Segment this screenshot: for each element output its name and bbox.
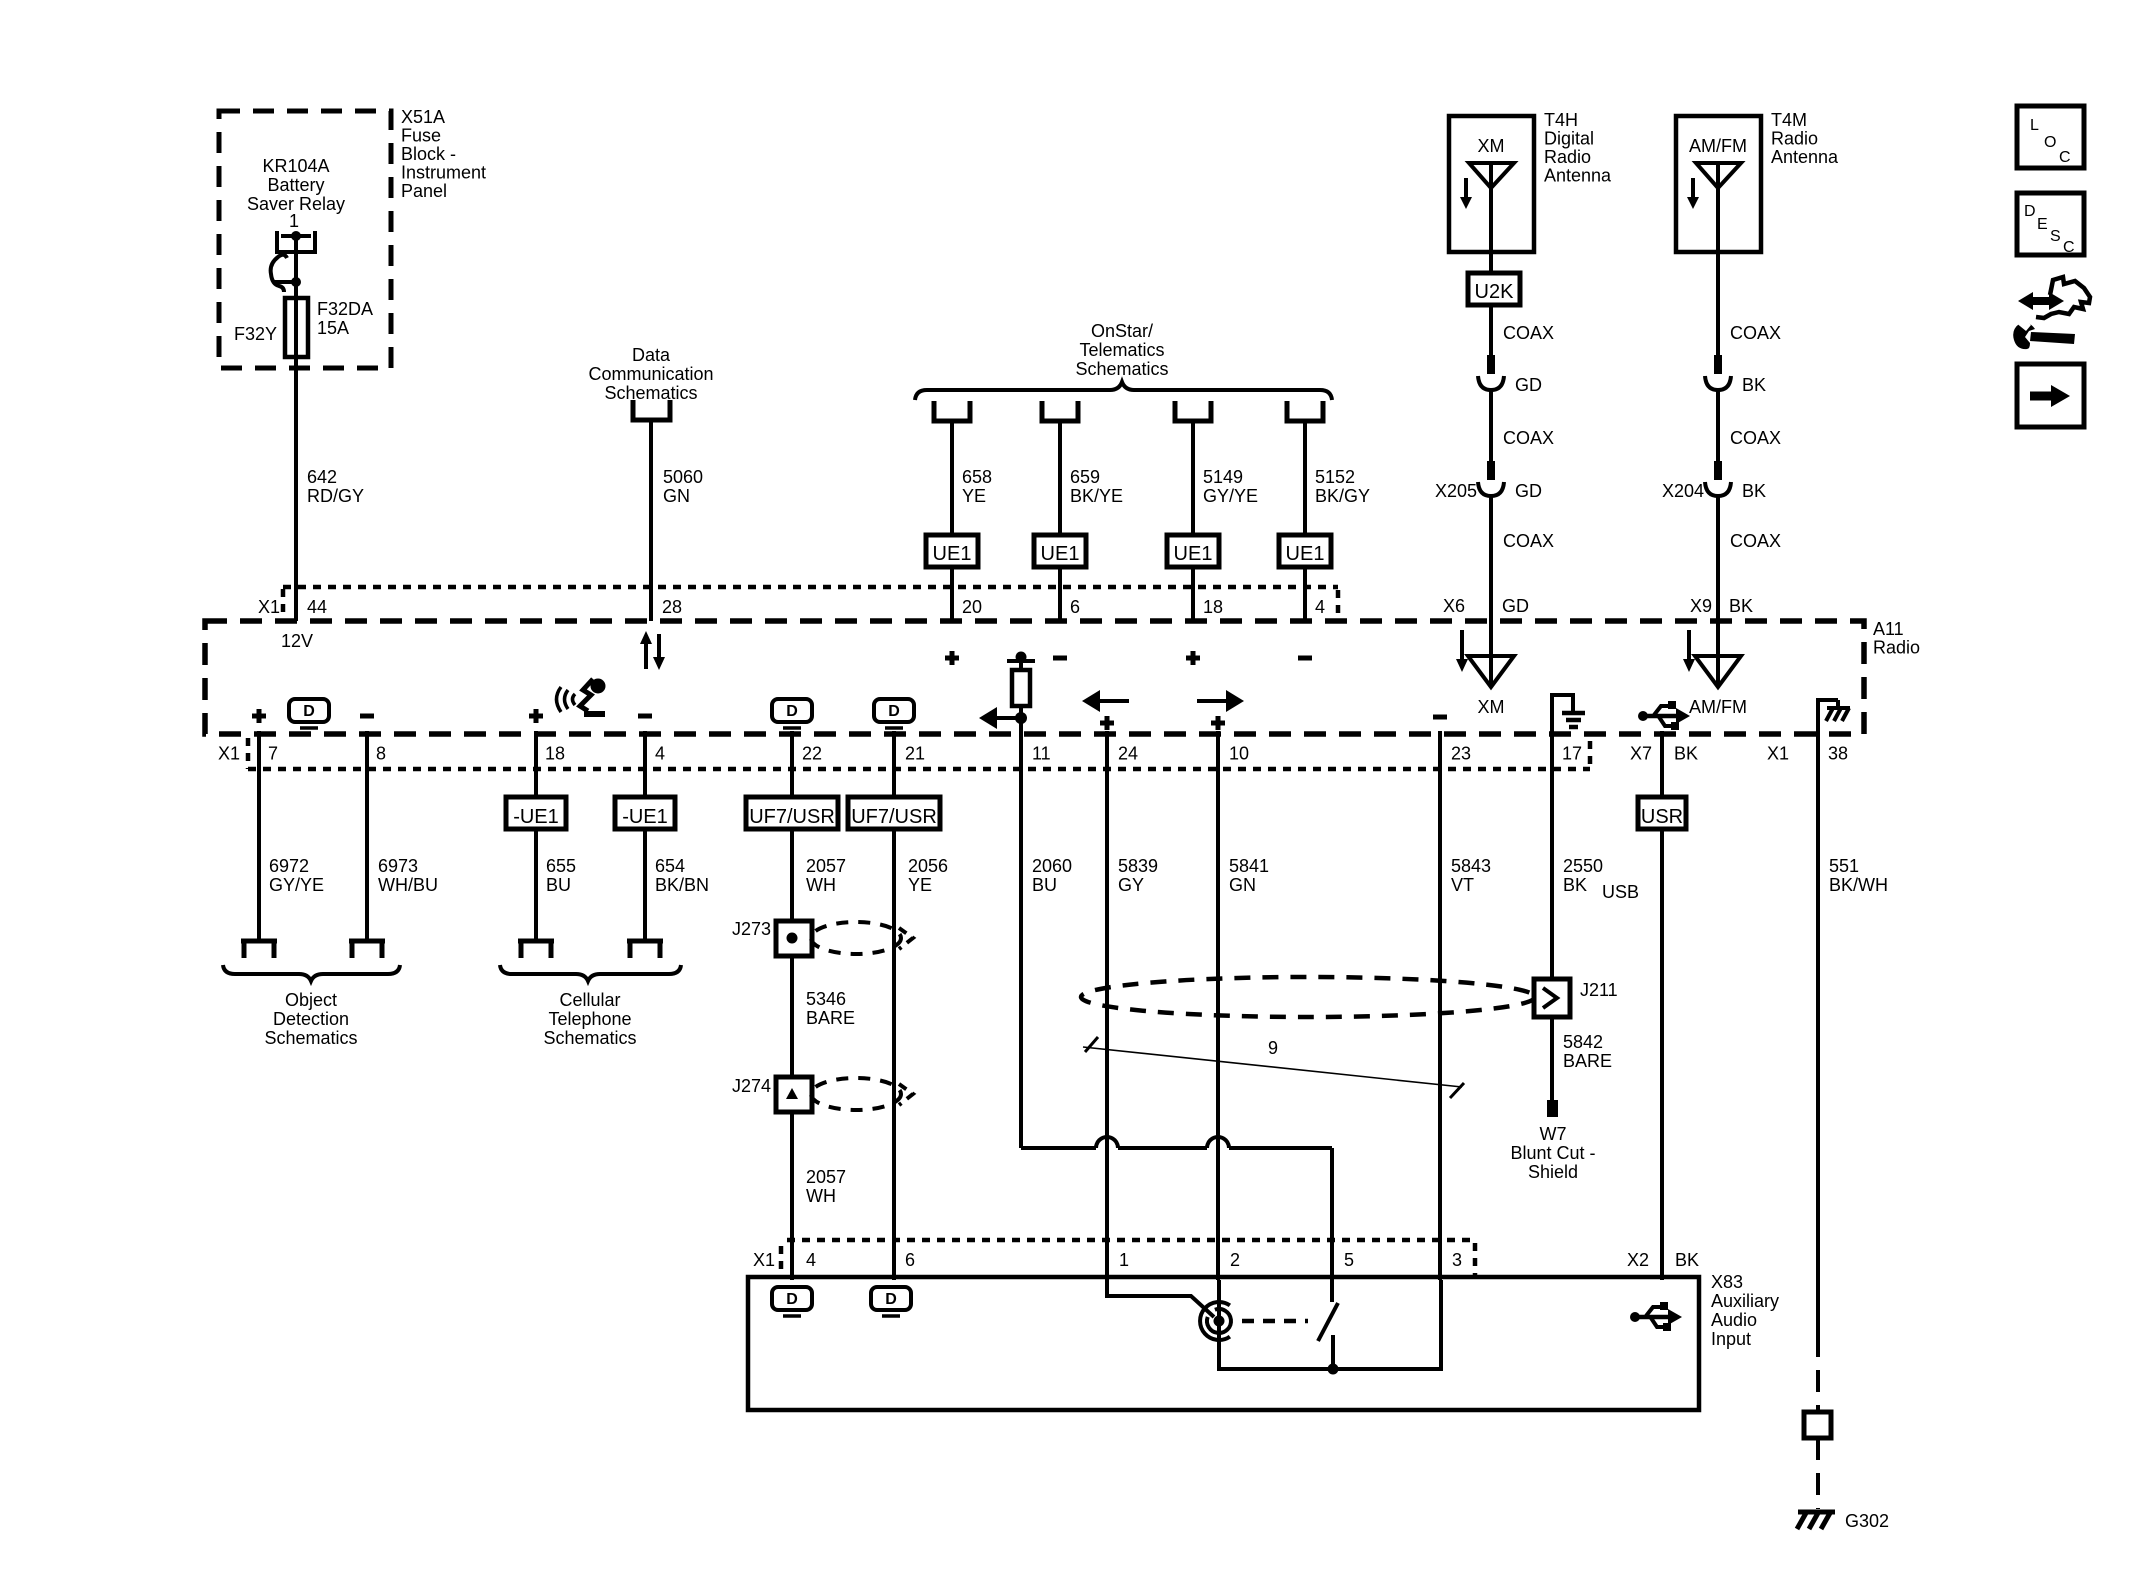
data communication schematics label	[588, 345, 713, 403]
svg-text:GD: GD	[1502, 596, 1529, 616]
svg-text:GN: GN	[1229, 875, 1256, 895]
relay KR104A contact	[277, 231, 315, 282]
data communication connector	[633, 400, 670, 420]
svg-text:XM: XM	[1478, 697, 1505, 717]
svg-text:BU: BU	[1032, 875, 1057, 895]
svg-text:4: 4	[806, 1250, 816, 1270]
svg-text:X2: X2	[1627, 1250, 1649, 1270]
svg-text:T4H: T4H	[1544, 110, 1578, 130]
arrow out (pin 10)	[1197, 690, 1244, 712]
svg-text:USB: USB	[1602, 882, 1639, 902]
svg-text:655: 655	[546, 856, 576, 876]
svg-text:S: S	[2050, 228, 2061, 245]
svg-text:5843: 5843	[1451, 856, 1491, 876]
shield ellipse (J211)	[1081, 977, 1535, 1017]
svg-text:X204: X204	[1662, 481, 1704, 501]
svg-text:6: 6	[905, 1250, 915, 1270]
display D box (pin 7/8 pair)	[289, 699, 329, 728]
jack switch link (dashed)	[1242, 1319, 1308, 1324]
coax inline connector 1 (T4H)	[1478, 355, 1542, 395]
svg-text:5839: 5839	[1118, 856, 1158, 876]
svg-text:BK: BK	[1674, 744, 1698, 764]
svg-text:Schematics: Schematics	[264, 1028, 357, 1048]
wire 551 dashed to ground	[1816, 1438, 1820, 1509]
wire 2060 BU	[1021, 734, 1072, 1148]
svg-text:WH/BU: WH/BU	[378, 875, 438, 895]
svg-text:X1: X1	[258, 597, 280, 617]
svg-text:D: D	[303, 703, 315, 720]
svg-text:X6: X6	[1443, 596, 1465, 616]
svg-text:Schematics: Schematics	[604, 383, 697, 403]
OnStar connector 5149	[1175, 401, 1211, 421]
svg-text:X83: X83	[1711, 1272, 1743, 1292]
wire 2550 BK	[1552, 734, 1603, 979]
svg-text:Object: Object	[285, 990, 337, 1010]
relay KR104A label	[247, 156, 345, 214]
brace object detection	[223, 965, 400, 981]
svg-text:UE1: UE1	[1041, 543, 1080, 565]
speaker - (pin 8)	[360, 714, 374, 719]
svg-text:F32Y: F32Y	[234, 324, 277, 344]
antenna T4H label	[1544, 110, 1612, 186]
svg-text:O: O	[2044, 134, 2056, 151]
svg-text:3: 3	[1452, 1250, 1462, 1270]
radio A11 label	[1873, 619, 1920, 658]
wire 5841 GN	[1218, 731, 1269, 1280]
svg-text:5060: 5060	[663, 467, 703, 487]
object detection label	[264, 990, 357, 1048]
wire 655 BU	[536, 829, 576, 941]
splice pack -UE1 (655)	[506, 731, 566, 829]
svg-text:X7: X7	[1630, 744, 1652, 764]
svg-text:YE: YE	[908, 875, 932, 895]
svg-text:5152: 5152	[1315, 467, 1355, 487]
wire 659 BK/YE	[1060, 421, 1123, 535]
svg-text:18: 18	[1203, 597, 1223, 617]
splice J211	[1534, 979, 1618, 1017]
svg-text:11: 11	[1032, 744, 1051, 764]
OnStar brace	[915, 382, 1332, 400]
X83 connector dotted row	[753, 1240, 1475, 1277]
antenna T4M symbol	[1696, 163, 1741, 252]
aux + (pin 10)	[1211, 716, 1225, 730]
svg-text:WH: WH	[806, 875, 836, 895]
fuse block label X51A	[401, 107, 486, 201]
phone + (pin 18)	[529, 709, 543, 723]
svg-text:BK: BK	[1742, 481, 1766, 501]
antenna T4M arrow	[1687, 178, 1699, 209]
wire COAX (X204 to radio X9)	[1718, 496, 1781, 621]
svg-text:1: 1	[1119, 1250, 1129, 1270]
shield ellipse (J274)	[811, 1078, 913, 1110]
svg-text:44: 44	[307, 597, 327, 617]
wire 5149 GY/YE	[1193, 421, 1258, 535]
svg-text:GY/YE: GY/YE	[269, 875, 324, 895]
svg-text:Panel: Panel	[401, 181, 447, 201]
splice pack UE1 (5152)	[1279, 535, 1331, 567]
terminal (pin 7 wire)	[241, 941, 277, 958]
svg-text:658: 658	[962, 467, 992, 487]
svg-text:X51A: X51A	[401, 107, 445, 127]
svg-text:2057: 2057	[806, 856, 846, 876]
phone - (pin 4)	[638, 714, 652, 719]
svg-text:6973: 6973	[378, 856, 418, 876]
svg-text:Battery: Battery	[267, 175, 324, 195]
wire 659 to pin 6	[1058, 567, 1062, 621]
svg-text:Telephone: Telephone	[548, 1009, 631, 1029]
svg-text:USR: USR	[1641, 806, 1683, 828]
svg-text:Antenna: Antenna	[1771, 147, 1839, 167]
svg-text:UF7/USR: UF7/USR	[851, 806, 937, 828]
terminal (pin 8 wire)	[349, 941, 385, 958]
AM/FM antenna symbol (inside radio)	[1689, 621, 1747, 717]
svg-text:D: D	[786, 703, 798, 720]
svg-text:KR104A: KR104A	[262, 156, 329, 176]
icon DESC	[2017, 193, 2084, 256]
OnStar polarity + (pin 18)	[1186, 651, 1200, 665]
svg-text:-UE1: -UE1	[513, 806, 559, 828]
svg-text:18: 18	[545, 744, 565, 764]
svg-text:AM/FM: AM/FM	[1689, 697, 1747, 717]
svg-text:659: 659	[1070, 467, 1100, 487]
svg-text:Radio: Radio	[1873, 638, 1920, 658]
XM antenna symbol (inside radio)	[1468, 621, 1514, 717]
svg-text:UF7/USR: UF7/USR	[749, 806, 835, 828]
wire 5149 to pin 18	[1191, 567, 1195, 621]
wire 6972 GY/YE	[259, 731, 324, 941]
data link up/down arrows (pin 28)	[640, 631, 665, 670]
svg-text:Digital: Digital	[1544, 129, 1594, 149]
radio top connector X1 dotted row	[258, 587, 1338, 618]
svg-text:YE: YE	[962, 486, 986, 506]
icon harness arrows	[2018, 277, 2090, 318]
wire COAX (X205 to radio X6)	[1491, 496, 1554, 621]
svg-text:J274: J274	[732, 1076, 771, 1096]
cellular telephone label	[543, 990, 636, 1048]
wire relay to fuse	[294, 282, 298, 300]
X83 label	[1711, 1272, 1779, 1349]
svg-text:COAX: COAX	[1730, 428, 1781, 448]
radio bottom connector X1 dotted row	[218, 738, 1590, 769]
svg-text:A11: A11	[1873, 619, 1904, 639]
pin X1 38 label	[1767, 744, 1848, 764]
terminal (pin 4 wire)	[627, 941, 663, 958]
svg-text:Auxiliary: Auxiliary	[1711, 1291, 1779, 1311]
option box UF7/USR (pin 21)	[848, 731, 940, 829]
svg-text:5842: 5842	[1563, 1032, 1603, 1052]
inline connector X204	[1662, 461, 1766, 501]
svg-text:5841: 5841	[1229, 856, 1269, 876]
wire 2060 horizontal with hops	[1021, 1137, 1332, 1280]
svg-text:BK/YE: BK/YE	[1070, 486, 1123, 506]
svg-text:Fuse: Fuse	[401, 126, 441, 146]
svg-text:2: 2	[1230, 1250, 1240, 1270]
wire 5152 to pin 4	[1303, 567, 1307, 621]
pin X7 BK label	[1630, 744, 1698, 764]
OnStar/Telematics label	[1075, 321, 1168, 379]
svg-text:7: 7	[268, 744, 278, 764]
svg-text:COAX: COAX	[1730, 323, 1781, 343]
option box USR (X7)	[1638, 731, 1686, 829]
wire 551 BK/WH	[1818, 734, 1888, 1335]
OnStar connector 5152	[1287, 401, 1323, 421]
svg-text:BU: BU	[546, 875, 571, 895]
wire 642 RD/GY	[296, 357, 364, 621]
antenna T4H box	[1449, 116, 1534, 252]
svg-text:Instrument: Instrument	[401, 163, 486, 183]
OnStar connector 659	[1042, 401, 1078, 421]
svg-text:J211: J211	[1580, 980, 1618, 1000]
svg-text:9: 9	[1268, 1038, 1278, 1058]
splice J274	[732, 1076, 812, 1112]
svg-text:UE1: UE1	[1286, 543, 1325, 565]
chassis ground (pin 38)	[1816, 700, 1850, 734]
svg-text:BK: BK	[1675, 1250, 1699, 1270]
inline connector (551)	[1804, 1412, 1831, 1438]
wire 5152 BK/GY	[1305, 421, 1370, 535]
wire USB	[1602, 829, 1662, 1280]
svg-text:2550: 2550	[1563, 856, 1603, 876]
wire 658 to pin 20	[950, 567, 954, 621]
svg-text:T4M: T4M	[1771, 110, 1807, 130]
svg-text:654: 654	[655, 856, 685, 876]
wire 658 YE	[952, 421, 992, 535]
svg-text:6: 6	[1070, 597, 1080, 617]
antenna T4H arrow	[1460, 178, 1472, 209]
svg-text:X1: X1	[1767, 744, 1789, 764]
svg-text:X9: X9	[1690, 596, 1712, 616]
svg-text:BK: BK	[1729, 596, 1753, 616]
terminal (pin 18 wire)	[518, 941, 554, 958]
OnStar polarity + (pin 20)	[945, 651, 959, 665]
arrow in (pin 24)	[1082, 690, 1129, 712]
fuse F32DA 15A	[285, 298, 373, 357]
svg-text:BK/BN: BK/BN	[655, 875, 709, 895]
svg-text:2057: 2057	[806, 1167, 846, 1187]
svg-text:GY/YE: GY/YE	[1203, 486, 1258, 506]
USB icon (radio X7)	[1638, 701, 1690, 730]
arrow out (pin 11)	[979, 707, 1027, 729]
svg-text:W7: W7	[1540, 1124, 1567, 1144]
svg-text:D: D	[2024, 203, 2036, 220]
svg-text:Schematics: Schematics	[1075, 359, 1168, 379]
brace cellular telephone	[500, 965, 681, 981]
ground G302	[1797, 1511, 1889, 1531]
display D box (pin 22)	[772, 699, 812, 728]
svg-text:BK/WH: BK/WH	[1829, 875, 1888, 895]
AM/FM antenna arrow (inside radio)	[1683, 630, 1695, 672]
svg-text:Input: Input	[1711, 1329, 1751, 1349]
svg-text:D: D	[885, 1291, 897, 1308]
icon next arrow box	[2017, 364, 2084, 427]
X83 pin X2 BK label	[1627, 1250, 1699, 1270]
svg-text:BK/GY: BK/GY	[1315, 486, 1370, 506]
svg-text:COAX: COAX	[1503, 323, 1554, 343]
svg-text:X1: X1	[753, 1250, 775, 1270]
wire COAX (T4M to connector)	[1718, 252, 1781, 357]
X83 box	[748, 1277, 1699, 1410]
splice J273	[732, 919, 812, 956]
svg-text:COAX: COAX	[1503, 428, 1554, 448]
wire 5060 GN	[651, 420, 703, 621]
svg-text:5346: 5346	[806, 989, 846, 1009]
svg-text:RD/GY: RD/GY	[307, 486, 364, 506]
icon wrench	[2013, 315, 2075, 349]
wire 5842 BARE	[1552, 1017, 1612, 1100]
svg-text:Antenna: Antenna	[1544, 166, 1612, 186]
radio A11 dashed box	[205, 621, 1864, 734]
wire 6973 WH/BU	[367, 731, 438, 941]
svg-text:J273: J273	[732, 919, 771, 939]
svg-text:17: 17	[1562, 744, 1582, 764]
svg-text:Radio: Radio	[1771, 129, 1818, 149]
svg-text:WH: WH	[806, 1186, 836, 1206]
svg-text:38: 38	[1828, 744, 1848, 764]
svg-text:Communication: Communication	[588, 364, 713, 384]
svg-text:Shield: Shield	[1528, 1162, 1578, 1182]
svg-text:C: C	[2063, 239, 2075, 256]
svg-text:Data: Data	[632, 345, 671, 365]
svg-text:UE1: UE1	[933, 543, 972, 565]
svg-text:X1: X1	[218, 744, 240, 764]
svg-text:24: 24	[1118, 744, 1138, 764]
svg-text:GD: GD	[1515, 481, 1542, 501]
svg-text:4: 4	[655, 744, 665, 764]
aux - (pin 23)	[1433, 715, 1447, 720]
svg-text:U2K: U2K	[1475, 281, 1515, 303]
svg-text:GN: GN	[663, 486, 690, 506]
wire 654 BK/BN	[645, 829, 709, 941]
svg-text:BK: BK	[1563, 875, 1587, 895]
splice pack UE1 (658)	[926, 535, 978, 567]
svg-text:-UE1: -UE1	[622, 806, 668, 828]
wire 2056 YE	[894, 829, 948, 1280]
jack detect wire (pin 1)	[1107, 1280, 1214, 1317]
svg-text:12V: 12V	[281, 631, 313, 651]
svg-text:OnStar/: OnStar/	[1091, 321, 1153, 341]
wire 5346 BARE	[792, 956, 855, 1077]
svg-text:2056: 2056	[908, 856, 948, 876]
resistor (pin 11 detect)	[1007, 652, 1035, 735]
svg-text:1: 1	[289, 211, 299, 231]
antenna T4M box	[1676, 116, 1761, 252]
svg-text:XM: XM	[1478, 136, 1505, 156]
jack switch	[1318, 1280, 1339, 1375]
svg-text:GD: GD	[1515, 375, 1542, 395]
wire 5843 VT	[1440, 731, 1491, 1280]
shield ellipse (J273)	[811, 922, 913, 954]
phone handset icon	[557, 679, 606, 715]
svg-text:22: 22	[802, 744, 822, 764]
display D box (pin 21)	[874, 699, 914, 728]
option box UF7/USR (pin 22)	[746, 731, 838, 829]
antenna T4H symbol	[1469, 163, 1514, 252]
svg-text:Cellular: Cellular	[559, 990, 620, 1010]
OnStar polarity - (pin 4)	[1298, 656, 1312, 661]
wire COAX (connector1 to X205)	[1491, 390, 1554, 463]
aux + (pin 24)	[1100, 716, 1114, 730]
svg-text:28: 28	[662, 597, 682, 617]
svg-text:G302: G302	[1845, 1511, 1889, 1531]
svg-text:D: D	[786, 1291, 798, 1308]
svg-text:Blunt Cut -: Blunt Cut -	[1510, 1143, 1595, 1163]
wire antenna to U2K	[1489, 252, 1493, 273]
svg-text:Telematics: Telematics	[1079, 340, 1164, 360]
wire 551 dashed lower	[1816, 1335, 1820, 1412]
XM antenna arrow (inside radio)	[1456, 630, 1468, 672]
svg-text:4: 4	[1315, 597, 1325, 617]
svg-text:COAX: COAX	[1503, 531, 1554, 551]
svg-text:E: E	[2037, 216, 2048, 233]
OnStar connector 658	[934, 401, 970, 421]
svg-text:Audio: Audio	[1711, 1310, 1757, 1330]
coax inline connector 1 (T4M)	[1705, 355, 1766, 395]
svg-text:6972: 6972	[269, 856, 309, 876]
svg-text:Block -: Block -	[401, 144, 456, 164]
wire COAX (connector1 to X204)	[1718, 390, 1781, 463]
display D box (X83 pin 4)	[772, 1287, 812, 1316]
fuse block X51A dashed box	[219, 111, 391, 368]
svg-text:15A: 15A	[317, 318, 349, 338]
svg-text:5149: 5149	[1203, 467, 1243, 487]
option box U2K	[1468, 273, 1520, 305]
svg-text:2060: 2060	[1032, 856, 1072, 876]
svg-text:X205: X205	[1435, 481, 1477, 501]
svg-text:Detection: Detection	[273, 1009, 349, 1029]
pin X9 BK label	[1690, 596, 1753, 616]
speaker + (pin 7)	[252, 709, 266, 723]
display D box (X83 pin 6)	[871, 1287, 911, 1316]
jack plug symbol	[1200, 1302, 1231, 1340]
svg-text:Radio: Radio	[1544, 147, 1591, 167]
wire 5839 GY	[1107, 731, 1158, 1280]
svg-text:21: 21	[905, 744, 925, 764]
signal ground (pin 17)	[1550, 695, 1585, 734]
blunt cut terminal W7	[1510, 1100, 1595, 1182]
svg-text:L: L	[2030, 117, 2039, 134]
svg-text:GY: GY	[1118, 875, 1144, 895]
splice pack UE1 (659)	[1034, 535, 1086, 567]
svg-text:BARE: BARE	[1563, 1051, 1612, 1071]
splice pack -UE1 (654)	[615, 731, 675, 829]
svg-text:5: 5	[1344, 1250, 1354, 1270]
pin X6 GD label	[1443, 596, 1529, 616]
inline connector X205	[1435, 461, 1542, 501]
svg-text:8: 8	[376, 744, 386, 764]
twisted pair note 9	[1083, 1037, 1464, 1098]
svg-text:VT: VT	[1451, 875, 1474, 895]
svg-text:F32DA: F32DA	[317, 299, 373, 319]
wire 2057 WH (upper)	[792, 829, 846, 921]
svg-text:Schematics: Schematics	[543, 1028, 636, 1048]
svg-text:AM/FM: AM/FM	[1689, 136, 1747, 156]
svg-text:BARE: BARE	[806, 1008, 855, 1028]
USB icon (X83)	[1630, 1302, 1682, 1331]
svg-text:COAX: COAX	[1730, 531, 1781, 551]
svg-text:D: D	[888, 703, 900, 720]
relay switch blade	[271, 255, 301, 292]
svg-text:642: 642	[307, 467, 337, 487]
svg-text:10: 10	[1229, 744, 1249, 764]
svg-text:BK: BK	[1742, 375, 1766, 395]
svg-text:UE1: UE1	[1174, 543, 1213, 565]
OnStar polarity - (pin 6)	[1053, 656, 1067, 661]
antenna T4M label	[1771, 110, 1839, 167]
wire COAX (U2K to connector)	[1491, 305, 1554, 357]
svg-text:20: 20	[962, 597, 982, 617]
svg-text:C: C	[2059, 149, 2071, 166]
splice pack UE1 (5149)	[1167, 535, 1219, 567]
